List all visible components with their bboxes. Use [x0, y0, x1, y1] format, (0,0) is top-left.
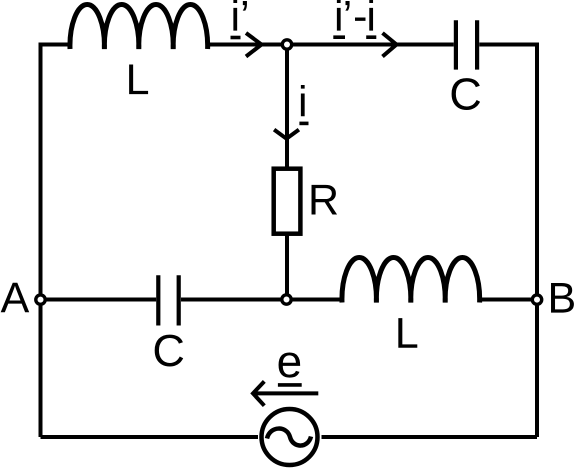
wire inductor to node T [207, 43, 288, 47]
wire capacitor C2 to node M [181, 298, 287, 302]
node M (middle junction) [282, 295, 291, 304]
wire node M to inductor L2 [290, 298, 343, 302]
wire bottom left [41, 435, 259, 439]
source sine symbol [267, 429, 311, 446]
wire A to capacitor C2 [41, 298, 157, 302]
label L1 [129, 65, 148, 95]
wire inductor L2 to node B [479, 298, 538, 302]
label L2 [398, 318, 417, 348]
wire node T down to resistor [285, 48, 289, 169]
capacitor C2 (middle) plates [158, 275, 178, 325]
inductor L2 (middle right) [342, 258, 480, 303]
arrow i (down) [274, 130, 299, 139]
arrow e (left) [253, 381, 318, 405]
underline i' [231, 36, 241, 40]
node A [36, 295, 45, 304]
source e (AC) circle [262, 409, 318, 465]
label i' [233, 0, 247, 31]
wire bottom right [322, 435, 538, 439]
wire top-left horizontal [41, 45, 72, 438]
arrow i' [246, 33, 262, 57]
wire capacitor to top-right corner and right vertical [479, 45, 537, 438]
node T (top junction) [282, 40, 291, 49]
label e [279, 352, 301, 377]
inductor L1 (top) [70, 5, 208, 49]
wire resistor to node M [285, 234, 289, 300]
capacitor C1 (top right) plates [456, 20, 477, 69]
underline i [299, 122, 308, 126]
label i'-i [337, 0, 373, 31]
label i [301, 85, 305, 116]
underline i'-i (second) [366, 35, 376, 39]
label B [551, 283, 574, 313]
node B [532, 295, 541, 304]
wire node T to capacitor C1 [287, 43, 454, 47]
resistor R [274, 169, 301, 234]
label C2 [155, 335, 183, 367]
label A [1, 283, 30, 313]
underline i'-i (first) [333, 35, 345, 39]
label C1 [452, 78, 480, 110]
label R [312, 185, 338, 215]
arrow i'-i [383, 33, 397, 57]
underline e [278, 383, 302, 387]
